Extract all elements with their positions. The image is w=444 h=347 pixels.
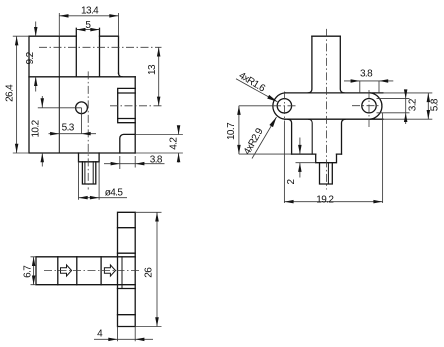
- svg-text:10.7: 10.7: [226, 122, 237, 140]
- svg-text:10.2: 10.2: [31, 119, 42, 137]
- svg-text:3.2: 3.2: [407, 98, 418, 111]
- svg-text:26: 26: [143, 267, 154, 278]
- svg-text:13: 13: [147, 64, 158, 75]
- svg-text:3.8: 3.8: [360, 68, 373, 79]
- svg-text:5.3: 5.3: [62, 122, 75, 133]
- svg-text:6.7: 6.7: [23, 265, 34, 278]
- svg-text:13.4: 13.4: [81, 6, 99, 17]
- svg-text:ø4.5: ø4.5: [105, 187, 124, 198]
- svg-text:26.4: 26.4: [5, 84, 16, 102]
- svg-text:19.2: 19.2: [316, 195, 334, 206]
- svg-text:5.8: 5.8: [430, 98, 441, 111]
- svg-text:3.8: 3.8: [150, 155, 163, 166]
- svg-text:4.2: 4.2: [169, 137, 180, 150]
- svg-text:9.2: 9.2: [25, 51, 36, 64]
